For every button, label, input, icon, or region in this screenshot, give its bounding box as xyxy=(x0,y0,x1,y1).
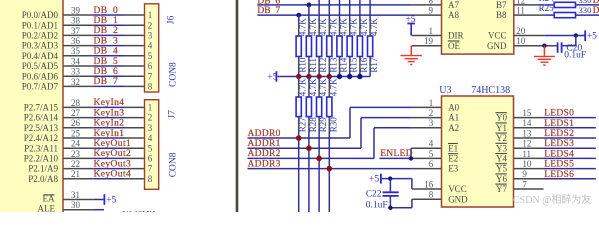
svg-text:4.7K: 4.7K xyxy=(359,18,369,36)
svg-text:CON8: CON8 xyxy=(168,62,178,87)
svg-text:ENLED: ENLED xyxy=(380,149,413,159)
svg-text:LEDS0: LEDS0 xyxy=(544,109,574,119)
svg-text:D: D xyxy=(593,6,599,16)
svg-text:J6: J6 xyxy=(167,16,177,25)
resistor R25 330 body xyxy=(554,13,575,18)
svg-text:3: 3 xyxy=(148,31,153,41)
MCU pin 22 P2.1/A9 / wire / net label KeyOut3 xyxy=(28,159,144,174)
svg-text:5: 5 xyxy=(429,149,434,159)
svg-text:Y3: Y3 xyxy=(496,143,507,153)
svg-text:38: 38 xyxy=(71,16,81,26)
svg-text:5: 5 xyxy=(148,143,153,153)
MCU pin 25 P2.4/A12 / wire / net label KeyIn1 xyxy=(24,128,145,143)
svg-text:4.7K: 4.7K xyxy=(328,78,338,96)
svg-text:LEDS2: LEDS2 xyxy=(544,129,574,139)
svg-text:Y0: Y0 xyxy=(496,113,507,123)
wire column 7 (data line through R16) xyxy=(359,0,361,77)
svg-text:U3: U3 xyxy=(439,85,451,96)
svg-text:KeyOut3: KeyOut3 xyxy=(94,159,132,169)
designator R28 xyxy=(308,117,318,133)
svg-text:A1: A1 xyxy=(448,113,459,123)
value 4.7K of R27 xyxy=(298,78,308,96)
svg-text:26: 26 xyxy=(71,118,81,128)
svg-text:ADDR0: ADDR0 xyxy=(248,129,281,139)
junction rail/column 1 xyxy=(296,74,301,79)
resistor R14 4.7K body xyxy=(337,36,342,57)
svg-text:8: 8 xyxy=(148,82,153,92)
net label (cropped) at R25 xyxy=(593,6,599,16)
svg-text:R10: R10 xyxy=(298,57,308,73)
junction GND/ground xyxy=(542,44,546,48)
wire column 1 (data line through R10) xyxy=(298,15,300,76)
svg-text:E1: E1 xyxy=(448,143,458,153)
svg-text:+5: +5 xyxy=(106,196,116,206)
junction rail/column 4 xyxy=(327,74,332,79)
designator R24 xyxy=(539,0,555,3)
J7 pin numbers 1-8 xyxy=(148,103,153,184)
svg-text:+5: +5 xyxy=(267,73,277,83)
MCU pin 23 P2.2/A10 / wire / net label KeyOut2 xyxy=(24,149,145,164)
svg-text:LEDS3: LEDS3 xyxy=(544,139,574,149)
value 4.7K of R14 xyxy=(339,18,349,36)
value 4.7K of R29 xyxy=(318,78,328,96)
svg-text:C22: C22 xyxy=(366,189,382,199)
wire DB6 to U2 pin 8 / net label DB 6 xyxy=(257,0,441,6)
svg-text:ADDR1: ADDR1 xyxy=(248,139,281,149)
wire DB7 to U2 pin 9 / net label DB 7 xyxy=(257,6,441,16)
designator C20 xyxy=(566,44,582,54)
value 0.1uF (C22) xyxy=(366,201,388,211)
IC U2 74HC245 body (cropped at top) xyxy=(442,0,514,54)
svg-text:8: 8 xyxy=(148,174,153,184)
U3 pin 11 Y4 (active low) xyxy=(495,149,531,164)
wire column 1 through R27 down past ADDR lines xyxy=(298,77,300,213)
value 4.7K of R30 xyxy=(328,78,338,96)
designator R25 xyxy=(539,3,555,13)
MCU pin 33 P0.6/AD6 / wire / net label DB 6 xyxy=(22,67,145,82)
value 4.7K of R10 xyxy=(298,18,308,36)
svg-text:DB 2: DB 2 xyxy=(94,26,119,36)
svg-text:20: 20 xyxy=(516,26,526,36)
U3 pin 7 Y7 (active low) xyxy=(495,179,527,194)
designator J7 xyxy=(167,110,177,119)
resistor R13 4.7K body xyxy=(327,36,332,57)
svg-text:P2.0/A8: P2.0/A8 xyxy=(28,174,58,184)
svg-text:A8: A8 xyxy=(448,10,459,20)
svg-text:32: 32 xyxy=(71,77,80,87)
svg-text:4.7K: 4.7K xyxy=(369,18,379,36)
svg-text:P0.4/AD4: P0.4/AD4 xyxy=(22,51,59,61)
wire column 3 through R29 down past ADDR lines xyxy=(318,77,320,213)
designator R10 xyxy=(298,57,308,73)
U3 pin 2 A1 xyxy=(429,108,459,123)
wire C22 to U3 GND pin 8 xyxy=(390,199,441,208)
wire U2 B8 through R25 xyxy=(514,14,599,16)
junction rail/column 5 xyxy=(337,74,342,79)
svg-text:Y6: Y6 xyxy=(496,174,507,184)
svg-text:KeyIn2: KeyIn2 xyxy=(94,119,125,129)
wire +5 to U3 VCC pin 16 xyxy=(382,179,442,189)
svg-text:22: 22 xyxy=(71,159,80,169)
svg-text:DB 3: DB 3 xyxy=(94,36,119,46)
value 0.1uF (C20) xyxy=(564,50,586,60)
U2 pin 8 A7 xyxy=(429,0,460,10)
svg-text:4.7K: 4.7K xyxy=(328,18,338,36)
svg-text:ADDR3: ADDR3 xyxy=(248,159,281,169)
junction rail/column 3 xyxy=(316,74,321,79)
wire column 2 through R28 down past ADDR lines xyxy=(308,77,310,213)
svg-text:6: 6 xyxy=(148,154,153,164)
svg-text:330: 330 xyxy=(578,5,592,15)
svg-text:KeyOut2: KeyOut2 xyxy=(94,149,132,159)
svg-text:8: 8 xyxy=(429,190,434,200)
svg-text:P0.0/AD0: P0.0/AD0 xyxy=(22,10,59,20)
svg-text:12: 12 xyxy=(522,139,531,149)
svg-text:DB 7: DB 7 xyxy=(257,6,280,16)
svg-text:R29: R29 xyxy=(318,117,328,133)
svg-text:37: 37 xyxy=(71,26,81,36)
value CON8 (J6) xyxy=(168,62,178,87)
resistor R29 4.7K body xyxy=(317,97,322,117)
svg-text:14: 14 xyxy=(522,118,532,128)
svg-text:KeyIn4: KeyIn4 xyxy=(94,98,125,108)
vertical sheet divider line xyxy=(236,0,239,212)
svg-text:CSDN @相醉为友: CSDN @相醉为友 xyxy=(513,193,591,206)
designator R16 xyxy=(359,57,369,73)
svg-text:4: 4 xyxy=(148,41,153,51)
wire column 4 (data line through R13) xyxy=(328,0,330,77)
value 4.7K of R12 xyxy=(318,18,328,36)
svg-text:P2.7/A15: P2.7/A15 xyxy=(24,103,59,113)
svg-text:Y1: Y1 xyxy=(496,123,507,133)
svg-text:DB 7: DB 7 xyxy=(94,77,119,87)
svg-text:3: 3 xyxy=(429,118,434,128)
svg-text:CON8: CON8 xyxy=(169,152,179,177)
resistor R17 4.7K body xyxy=(368,36,373,57)
wire Y7 stub xyxy=(514,188,544,190)
svg-text:DB 6: DB 6 xyxy=(94,67,119,77)
junction rail/column 6 xyxy=(347,74,352,79)
power +5 at DIR xyxy=(405,15,415,35)
MCU pin 37 P0.2/AD2 / wire / net label DB 2 xyxy=(22,26,145,41)
svg-text:R16: R16 xyxy=(359,57,369,73)
svg-text:4: 4 xyxy=(148,133,153,143)
resistor R15 4.7K body xyxy=(347,36,352,57)
value 4.7K of R17 xyxy=(369,18,379,36)
MCU pin 35 P0.4/AD4 / wire / net label DB 4 xyxy=(22,46,145,61)
svg-text:ADDR2: ADDR2 xyxy=(248,149,281,159)
resistor R11 4.7K body xyxy=(306,36,311,57)
junction rail/column 2 xyxy=(306,74,311,79)
designator U3 xyxy=(439,85,451,96)
svg-text:7: 7 xyxy=(148,164,153,174)
MCU pin 31 EA (active low) wire xyxy=(43,190,104,203)
svg-text:9: 9 xyxy=(522,169,527,179)
power +5 at pull-up rail xyxy=(267,71,277,82)
svg-text:24: 24 xyxy=(71,139,81,149)
svg-text:+5: +5 xyxy=(405,15,415,25)
svg-text:35: 35 xyxy=(71,46,81,56)
svg-text:2: 2 xyxy=(429,108,434,118)
svg-text:J7: J7 xyxy=(167,110,177,119)
svg-text:11: 11 xyxy=(516,6,525,16)
U2 pin 11 B8 xyxy=(496,6,525,21)
svg-text:7: 7 xyxy=(522,179,527,189)
svg-text:LEDS1: LEDS1 xyxy=(544,119,574,129)
U3 pin 3 A2 xyxy=(429,118,459,133)
U3 pin 6 E3 xyxy=(429,159,459,174)
U3 pin 12 Y3 (active low) xyxy=(495,139,531,154)
svg-text:1: 1 xyxy=(429,26,434,36)
designator R12 xyxy=(318,58,328,73)
MCU pin 32 P0.7/AD7 / wire / net label DB 7 xyxy=(22,77,145,92)
designator R27 xyxy=(298,117,308,133)
wire ADDR1 to U3 pin 2 / net label ADDR1 xyxy=(248,118,442,149)
svg-text:10: 10 xyxy=(522,159,532,169)
svg-text:4.7K: 4.7K xyxy=(308,18,318,36)
svg-text:4.7K: 4.7K xyxy=(318,78,328,96)
svg-text:R15: R15 xyxy=(349,57,359,73)
U2 pin 12 B7 xyxy=(496,0,525,10)
svg-text:+5: +5 xyxy=(587,32,597,42)
svg-text:1: 1 xyxy=(148,103,153,113)
resistor R28 4.7K body xyxy=(306,97,311,117)
wire Y4 / net label LEDS4 xyxy=(514,149,596,159)
power +5 at U2 VCC xyxy=(585,30,597,41)
designator R13 xyxy=(328,57,338,73)
resistor R24 330 body xyxy=(554,2,575,7)
value CON8 (J7) xyxy=(169,152,179,177)
svg-text:9: 9 xyxy=(429,6,434,16)
resistor R27 4.7K body xyxy=(296,97,301,117)
svg-text:13: 13 xyxy=(522,128,532,138)
junction rail/column 7 xyxy=(357,74,362,79)
U2 pin 1 DIR xyxy=(412,26,464,41)
svg-text:31: 31 xyxy=(71,190,80,200)
svg-text:D: D xyxy=(593,0,599,6)
designator R15 xyxy=(349,57,359,73)
U2 pin 19 OE (active low) xyxy=(412,36,461,51)
resistor R16 4.7K body xyxy=(357,36,362,57)
U3 pin 16 VCC xyxy=(424,179,466,194)
svg-text:VCC: VCC xyxy=(448,184,467,194)
svg-text:LEDS5: LEDS5 xyxy=(544,160,574,170)
J6 pin numbers 1-8 xyxy=(148,10,153,91)
svg-text:E3: E3 xyxy=(448,164,458,174)
svg-text:21: 21 xyxy=(71,169,80,179)
svg-text:+5: +5 xyxy=(369,175,379,185)
svg-text:DIR: DIR xyxy=(448,31,464,41)
svg-text:2: 2 xyxy=(148,20,153,30)
svg-text:R14: R14 xyxy=(339,57,349,73)
svg-text:1: 1 xyxy=(148,10,153,20)
ground symbol at OE xyxy=(401,46,422,65)
svg-text:P0.1/AD1: P0.1/AD1 xyxy=(22,20,58,30)
svg-text:P0.5/AD5: P0.5/AD5 xyxy=(22,61,59,71)
junction DB6/column2 xyxy=(307,3,312,8)
wire Y5 / net label LEDS5 xyxy=(514,160,596,170)
svg-text:7: 7 xyxy=(148,71,153,81)
svg-text:11: 11 xyxy=(522,149,531,159)
svg-text:15: 15 xyxy=(522,108,532,118)
value 4.7K of R15 xyxy=(349,18,359,36)
MCU pin 36 P0.3/AD3 / wire / net label DB 3 xyxy=(22,36,145,51)
svg-text:23: 23 xyxy=(71,149,81,159)
svg-text:P2.4/A12: P2.4/A12 xyxy=(24,133,58,143)
svg-text:P0.3/AD3: P0.3/AD3 xyxy=(22,41,59,51)
wire Y3 / net label LEDS3 xyxy=(514,139,596,149)
svg-text:R13: R13 xyxy=(328,57,338,73)
svg-text:5: 5 xyxy=(148,51,153,61)
wire +5 rail for pull-ups xyxy=(278,76,371,78)
MCU pin 27 P2.6/A14 / wire / net label KeyIn3 xyxy=(24,108,145,123)
svg-text:30: 30 xyxy=(71,200,81,210)
wire column 2 (data line through R11) xyxy=(308,5,310,77)
wire column 6 (data line through R15) xyxy=(349,0,351,77)
MCU pin 38 P0.1/AD1 / wire / net label DB 1 xyxy=(22,16,145,31)
svg-text:R11: R11 xyxy=(308,58,318,73)
junction C22 bottom xyxy=(388,206,392,210)
svg-text:0.1uF: 0.1uF xyxy=(564,50,586,60)
svg-text:0.1uF: 0.1uF xyxy=(366,201,388,211)
connector J6 CON8 body xyxy=(145,4,159,92)
U3 pin 4 E1 xyxy=(429,139,458,154)
svg-text:Y5: Y5 xyxy=(496,164,507,174)
svg-text:33: 33 xyxy=(71,67,81,77)
svg-text:4.7K: 4.7K xyxy=(298,78,308,96)
capacitor C20 0.1uF xyxy=(558,36,576,53)
svg-text:28: 28 xyxy=(71,98,81,108)
U3 pin 15 Y0 (active low) xyxy=(495,108,532,123)
IC U3 74HC138 body xyxy=(442,96,514,207)
svg-text:1: 1 xyxy=(429,98,434,108)
svg-text:R30: R30 xyxy=(328,117,338,133)
value 330 (R24) xyxy=(578,0,592,5)
svg-text:8: 8 xyxy=(429,0,434,5)
resistor R10 4.7K body xyxy=(296,36,301,57)
svg-text:P0.2/AD2: P0.2/AD2 xyxy=(22,31,58,41)
svg-text:P2.3/A11: P2.3/A11 xyxy=(24,143,58,153)
svg-text:10: 10 xyxy=(516,36,526,46)
U3 pin 1 A0 xyxy=(429,98,460,113)
capacitor C22 0.1uF xyxy=(383,179,399,208)
MCU pin 21 P2.0/A8 / wire / net label KeyOut4 xyxy=(28,169,144,184)
wire ADDR2 to U3 pin 3 / net label ADDR2 xyxy=(248,128,442,159)
junction ADDR3/column 4 xyxy=(327,166,333,172)
U3 pin 14 Y1 (active low) xyxy=(495,118,532,133)
MCU pin 28 P2.7/A15 / wire / net label KeyIn4 xyxy=(24,98,145,113)
svg-text:4.7K: 4.7K xyxy=(339,18,349,36)
designator R17 xyxy=(369,57,379,73)
svg-text:4.7K: 4.7K xyxy=(308,78,318,96)
svg-text:Y1 12MHz: Y1 12MHz xyxy=(123,210,160,212)
power +5 at U3 VCC xyxy=(369,174,381,185)
junction +5/C22 top xyxy=(388,176,392,180)
svg-text:GND: GND xyxy=(487,41,507,51)
U3 pin 9 Y6 (active low) xyxy=(495,169,527,184)
resistor R12 4.7K body xyxy=(317,36,322,57)
U2 pin 9 A8 xyxy=(429,6,460,21)
MCU pin 24 P2.3/A11 / wire / net label KeyOut1 xyxy=(24,139,144,154)
wire Y2 / net label LEDS2 xyxy=(514,129,596,139)
wire ADDR3 to U3 pin 6 / net label ADDR3 xyxy=(248,159,442,169)
wire column 8 (data line through R17) xyxy=(369,0,371,77)
U3 pin 10 Y5 (active low) xyxy=(495,159,532,174)
svg-text:36: 36 xyxy=(71,36,81,46)
svg-text:3: 3 xyxy=(148,123,153,133)
wire Y1 / net label LEDS1 xyxy=(514,119,596,129)
junction ADDR2/column 3 xyxy=(316,156,322,162)
svg-text:B7: B7 xyxy=(496,0,507,10)
MCU pin 39 P0.0/AD0 / wire / net label DB 0 xyxy=(22,5,145,20)
U2 pin 10 GND wire xyxy=(487,36,557,51)
svg-text:VCC: VCC xyxy=(488,31,507,41)
wire ENLED to U3 pins 4,5 / net label ENLED xyxy=(379,148,441,159)
svg-text:4: 4 xyxy=(429,139,434,149)
designator C22 xyxy=(366,189,382,199)
svg-text:P0.7/AD7: P0.7/AD7 xyxy=(22,82,59,92)
svg-text:Y4: Y4 xyxy=(496,154,507,164)
junction ENLED/E2 xyxy=(409,156,413,160)
svg-text:LEDS4: LEDS4 xyxy=(544,149,574,159)
svg-text:P2.1/A9: P2.1/A9 xyxy=(28,164,58,174)
value 330 (R25) xyxy=(578,5,592,15)
svg-text:KeyOut4: KeyOut4 xyxy=(94,170,132,180)
wire column 5 (data line through R14) xyxy=(339,0,341,77)
svg-text:74HC138: 74HC138 xyxy=(471,85,510,96)
svg-text:DB 5: DB 5 xyxy=(94,57,119,67)
svg-text:R28: R28 xyxy=(308,117,318,133)
svg-text:OE: OE xyxy=(448,41,460,51)
MCU U1 body (cropped at left/top/bottom) xyxy=(0,0,63,216)
svg-text:DB 0: DB 0 xyxy=(94,6,119,16)
designator R30 xyxy=(328,117,338,133)
svg-text:LEDS6: LEDS6 xyxy=(544,170,574,180)
value 4.7K of R13 xyxy=(328,18,338,36)
MCU pin 26 P2.5/A13 / wire / net label KeyIn2 xyxy=(24,118,145,133)
junction ADDR1/column 2 xyxy=(306,145,312,151)
svg-text:ALE: ALE xyxy=(38,204,56,213)
svg-text:34: 34 xyxy=(71,56,81,66)
net label (cropped) at R24 xyxy=(593,0,599,6)
svg-text:A2: A2 xyxy=(448,123,459,133)
U3 pin 13 Y2 (active low) xyxy=(495,128,532,143)
svg-text:R12: R12 xyxy=(318,58,328,73)
power +5 at EA pin xyxy=(104,194,116,206)
MCU pin 34 P0.5/AD5 / wire / net label DB 5 xyxy=(22,56,145,71)
wire Y6 / net label LEDS6 xyxy=(514,170,596,180)
designator J6 xyxy=(167,16,177,25)
wire column 4 through R30 down past ADDR lines xyxy=(328,77,330,213)
svg-text:25: 25 xyxy=(71,128,81,138)
value 74HC138 xyxy=(471,85,510,96)
svg-text:B8: B8 xyxy=(496,10,507,20)
svg-text:19: 19 xyxy=(424,36,434,46)
MCU pin 30 ALE wire xyxy=(38,200,105,213)
svg-text:4.7K: 4.7K xyxy=(298,18,308,36)
svg-text:4.7K: 4.7K xyxy=(318,18,328,36)
svg-text:R27: R27 xyxy=(298,117,308,133)
value 4.7K of R11 xyxy=(308,18,318,36)
svg-text:E2: E2 xyxy=(448,154,458,164)
U3 pin 5 E2 xyxy=(429,149,458,164)
ground symbol at U2 GND xyxy=(534,46,555,65)
junction VCC/C20 xyxy=(574,33,578,37)
svg-text:Y2: Y2 xyxy=(496,133,507,143)
svg-text:KeyIn3: KeyIn3 xyxy=(94,108,125,118)
wire ADDR0 to U3 pin 1 / net label ADDR0 xyxy=(248,107,442,138)
wire column 3 (data line through R12) xyxy=(318,0,320,77)
